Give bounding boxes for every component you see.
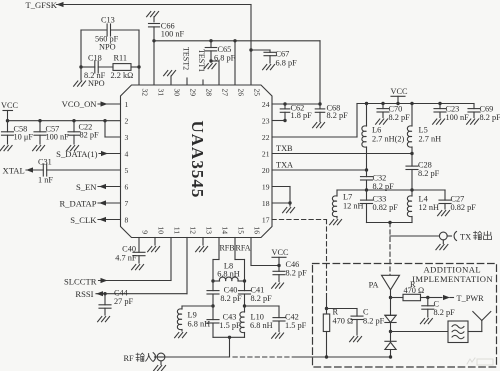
label XTAL [3, 166, 25, 176]
svg-text:6.8 nH: 6.8 nH [217, 270, 240, 279]
amplifier PA [369, 275, 400, 297]
wire R11 to pin 32 [137, 30, 140, 85]
svg-text:11: 11 [172, 227, 181, 235]
svg-text:470 Ω: 470 Ω [404, 286, 425, 295]
svg-text:L5: L5 [419, 126, 428, 135]
wire pin 22 to VCC rail [272, 104, 357, 138]
ground at pin 30 [164, 71, 176, 86]
svg-text:C13: C13 [101, 16, 115, 25]
ground below L9 [175, 333, 187, 338]
wire C13 loop left / node [79, 30, 82, 69]
ground below C65 [204, 64, 216, 69]
ground below C67 [263, 65, 275, 70]
ground below C44 [98, 317, 110, 322]
svg-text:7: 7 [125, 199, 129, 208]
svg-text:23: 23 [262, 116, 270, 125]
label RSSI / wire pin 12 [75, 238, 187, 300]
node C66 / net A [152, 39, 155, 42]
svg-text:RF: RF [124, 354, 135, 363]
capacitor C33 [361, 190, 399, 223]
wire C65 to pin 27 [211, 61, 219, 85]
U1 left pin numbers 1-8 [125, 100, 129, 225]
diode D1 [385, 298, 396, 332]
svg-text:9: 9 [140, 230, 149, 234]
svg-text:TXB: TXB [276, 144, 293, 153]
resistor R 470 vertical [323, 308, 353, 358]
capacitor C58 [2, 121, 34, 144]
svg-text:1 nF: 1 nF [38, 176, 53, 185]
ground below C42 [272, 333, 284, 338]
wire pin 24 net [272, 102, 322, 105]
inductor L4 [407, 190, 439, 223]
svg-text:TXA: TXA [276, 161, 293, 170]
capacitor C22 [68, 119, 99, 144]
capacitor C31 / wire pin 5 [26, 158, 121, 185]
svg-text:RFA: RFA [236, 243, 251, 252]
ground at pins 19/18 [283, 208, 295, 213]
ground below C18 node [74, 67, 86, 86]
U1 bottom pin numbers 9-16 [140, 226, 261, 234]
node R C junction [325, 307, 328, 310]
svg-text:8.2 pF: 8.2 pF [363, 317, 385, 326]
svg-text:8.2 pF: 8.2 pF [389, 113, 411, 122]
wire pin 17 dashed [272, 220, 327, 295]
wire pin 23 [272, 120, 285, 122]
wire VCC rail to pin 2 [6, 119, 121, 122]
capacitor C41 [239, 281, 273, 306]
svg-text:R_DATAP: R_DATAP [59, 199, 96, 209]
wire pin 17 into box [326, 294, 328, 309]
capacitor C66 [149, 22, 185, 86]
capacitor C43 [207, 306, 241, 337]
capacitor C32 [361, 170, 395, 191]
ground below right C [420, 319, 432, 324]
capacitor C70 [377, 104, 410, 123]
svg-text:21: 21 [262, 149, 270, 158]
wire net A to pin 24 node [319, 41, 321, 104]
connector RF input [153, 353, 165, 362]
capacitor C67 [249, 48, 297, 67]
power VCC right [391, 87, 409, 104]
svg-text:25: 25 [252, 89, 261, 97]
svg-text:32: 32 [140, 89, 149, 97]
ground below C40 [132, 265, 144, 270]
capacitor C69 [468, 104, 500, 123]
svg-text:C40: C40 [122, 245, 136, 254]
ground below C69 [467, 119, 479, 124]
wire TX node dashed down [389, 223, 391, 276]
svg-text:VCC: VCC [391, 87, 409, 96]
svg-text:2.7 nH(2): 2.7 nH(2) [372, 135, 404, 144]
wire pin 15 RFA [235, 238, 245, 282]
svg-text:6.8 pF: 6.8 pF [276, 59, 298, 68]
svg-text:VCO_ON: VCO_ON [62, 99, 98, 109]
wire to C42 [245, 306, 280, 318]
svg-text:27: 27 [220, 89, 229, 97]
capacitor C 8.2pF left [327, 308, 385, 336]
ground below RF connector [154, 366, 166, 371]
svg-text:8.2 pF: 8.2 pF [418, 169, 440, 178]
wire mid node M [337, 188, 445, 191]
label SLCCTR / wire pin 11 [64, 238, 171, 287]
svg-text:100 nF: 100 nF [46, 133, 70, 142]
op-amp U1 UAA3545 IC body [121, 85, 273, 238]
wire pin 14 RFB [213, 238, 219, 282]
U1 label UAA3545 [188, 121, 207, 199]
svg-text:L7: L7 [343, 193, 352, 202]
svg-text:C31: C31 [38, 158, 52, 167]
capacitor C40 8.2pF [207, 281, 242, 306]
wire filter to antenna [468, 331, 482, 333]
svg-text:VCC: VCC [272, 248, 290, 257]
antenna [473, 312, 491, 332]
capacitor C28 [406, 154, 440, 191]
node PA output [389, 296, 392, 299]
svg-text:TEST2: TEST2 [182, 47, 191, 70]
wire T_GFSK net from pin 25 [26, 0, 252, 85]
svg-text:5: 5 [125, 166, 129, 175]
svg-text:0.82 pF: 0.82 pF [373, 203, 399, 212]
capacitor C18 [81, 54, 113, 89]
wire TX tank bottom [367, 221, 413, 224]
wire VCC rail [357, 102, 474, 105]
ground below C57 [33, 146, 45, 151]
svg-text:C42: C42 [285, 313, 299, 322]
svg-text:10: 10 [156, 226, 165, 234]
label TX output [460, 231, 492, 241]
svg-text:S_EN: S_EN [76, 182, 97, 192]
capacitor C 8.2pF right [422, 298, 455, 318]
wire RF dashed [233, 356, 297, 358]
wire RF line in box [297, 355, 391, 358]
svg-text:L9: L9 [188, 311, 197, 320]
ground below C22 [67, 146, 79, 151]
svg-text:VCC: VCC [1, 101, 19, 110]
svg-text:30: 30 [172, 89, 181, 97]
svg-text:2: 2 [125, 116, 129, 125]
label ADDITIONAL IMPLEMENTATION [412, 265, 493, 284]
capacitor C57 [34, 119, 69, 144]
svg-text:8.2 pF: 8.2 pF [480, 113, 500, 122]
connector TX output [439, 232, 456, 244]
filter block [448, 321, 468, 343]
watermark [467, 358, 493, 365]
wire net A horizontal [154, 40, 320, 42]
svg-text:C18: C18 [88, 54, 102, 63]
svg-text:13: 13 [204, 226, 213, 234]
label TXB / wire pin 21 [272, 144, 412, 153]
ground below C23 [433, 119, 445, 124]
svg-text:C67: C67 [276, 50, 290, 59]
svg-text:8.2 pF: 8.2 pF [286, 269, 308, 278]
svg-text:RSSI: RSSI [75, 289, 93, 299]
label S_EN / wire pin 6 [76, 182, 121, 192]
label RFA [236, 243, 251, 252]
svg-text:TX: TX [460, 233, 471, 242]
wire / node to L9 [182, 304, 215, 309]
ground below C46 [272, 283, 284, 288]
svg-text:22: 22 [262, 133, 270, 142]
svg-text:L6: L6 [372, 126, 381, 135]
svg-text:10 μF: 10 μF [14, 133, 34, 142]
svg-text:8.2 pF: 8.2 pF [327, 111, 349, 120]
svg-text:8.2 pF: 8.2 pF [251, 294, 273, 303]
inductor L8 [211, 262, 246, 283]
svg-text:27 pF: 27 pF [114, 297, 134, 306]
svg-text:28: 28 [204, 89, 213, 97]
ground at pin 10 [148, 238, 160, 252]
diode D2 [385, 332, 396, 359]
svg-text:100 nF: 100 nF [161, 30, 185, 39]
label RF input [124, 353, 153, 363]
ground below C70 [376, 119, 388, 124]
svg-text:15: 15 [236, 226, 245, 234]
svg-text:19: 19 [262, 182, 270, 191]
svg-text:4.7 nF: 4.7 nF [115, 254, 137, 263]
wire to TX connector [390, 235, 439, 237]
label R_DATAP / wire pin 7 [59, 199, 120, 209]
wire pin 26 to net A [233, 39, 236, 85]
svg-text:12: 12 [188, 226, 197, 234]
wire pin 16 to VCC node [251, 238, 279, 266]
ground below TX connector [436, 245, 448, 250]
svg-text:8: 8 [125, 215, 129, 224]
svg-text:NPO: NPO [99, 43, 116, 52]
svg-text:3: 3 [125, 133, 129, 142]
svg-text:1.5 pF: 1.5 pF [285, 321, 307, 330]
svg-text:470 Ω: 470 Ω [333, 317, 354, 326]
svg-text:T_PWR: T_PWR [457, 294, 485, 303]
resistor R11 [111, 54, 140, 81]
label RFB [219, 243, 234, 252]
svg-text:0.82 pF: 0.82 pF [451, 203, 477, 212]
svg-text:RFB: RFB [219, 243, 234, 252]
wire pins 19-18 to ground [272, 187, 292, 207]
svg-text:1.8 pF: 1.8 pF [291, 111, 313, 120]
label VCO_ON / wire pin 1 [62, 99, 121, 109]
capacitor C13 [81, 16, 139, 52]
inductor L5 [407, 104, 441, 156]
svg-text:PA: PA [369, 281, 379, 290]
svg-text:1.5 pF: 1.5 pF [219, 321, 241, 330]
ground at pin 13 [196, 238, 208, 252]
svg-text:24: 24 [262, 100, 270, 109]
label S_DATA(1) / wire pin 4 [56, 149, 120, 159]
svg-text:2.7 nH: 2.7 nH [419, 135, 442, 144]
svg-text:12 nH: 12 nH [343, 202, 364, 211]
node diode junction [389, 330, 392, 333]
svg-text:C: C [363, 308, 369, 317]
capacitor C23 [434, 104, 469, 123]
svg-text:C43: C43 [223, 313, 237, 322]
wire to filter [391, 331, 449, 333]
power VCC mid [272, 248, 290, 267]
ground below left C [350, 337, 362, 342]
capacitor C40 4.7nF at pin 9 [115, 238, 145, 264]
ground below C58 [0, 146, 12, 151]
power VCC left [1, 101, 19, 121]
dashed box ADDITIONAL IMPLEMENTATION [313, 264, 497, 368]
wire rail to pin 3 [103, 119, 120, 137]
U1 right pin numbers 24-17 [262, 100, 270, 225]
svg-text:14: 14 [220, 226, 229, 234]
svg-text:S_DATA(1): S_DATA(1) [56, 149, 97, 159]
capacitor C44 [99, 289, 134, 316]
svg-text:26: 26 [236, 89, 245, 97]
inductor L6 [362, 104, 405, 172]
ground below C27 [438, 211, 450, 216]
label T_PWR [457, 294, 485, 303]
svg-text:6: 6 [125, 182, 129, 191]
ground below C68 [313, 123, 325, 128]
svg-text:29: 29 [188, 89, 197, 97]
wire RF input line [161, 357, 230, 365]
svg-text:L10: L10 [251, 313, 264, 322]
svg-text:12 nH: 12 nH [419, 203, 440, 212]
capacitor C42 [273, 313, 307, 332]
svg-text:20: 20 [262, 166, 270, 175]
inductor L10 [240, 304, 273, 337]
svg-text:4: 4 [125, 149, 129, 158]
svg-text:IMPLEMENTATION: IMPLEMENTATION [412, 274, 493, 284]
svg-text:2.2 kΩ: 2.2 kΩ [111, 71, 134, 80]
ground above C66 [147, 12, 159, 22]
svg-text:NPO: NPO [88, 79, 105, 88]
pin 29 TEST2 label [182, 47, 191, 85]
svg-text:1: 1 [125, 100, 129, 109]
svg-text:XTAL: XTAL [3, 166, 25, 176]
svg-text:31: 31 [156, 89, 165, 97]
svg-text:100 nF: 100 nF [446, 113, 470, 122]
resistor R 470 horizontal [391, 280, 428, 301]
capacitor C46 [273, 260, 307, 282]
svg-text:16: 16 [252, 226, 261, 234]
inductor L7 [332, 190, 363, 218]
svg-text:17: 17 [262, 215, 270, 224]
svg-text:6.8 nH: 6.8 nH [188, 320, 211, 329]
svg-text:SLCCTR: SLCCTR [64, 276, 97, 286]
svg-text:18: 18 [262, 199, 270, 208]
pin 28 TEST1 label [197, 49, 206, 85]
svg-text:6.8 nH: 6.8 nH [250, 321, 273, 330]
capacitor C68 [315, 103, 348, 121]
capacitor C27 [412, 190, 476, 212]
svg-text:82 pF: 82 pF [80, 131, 100, 140]
svg-text:8.2 pF: 8.2 pF [434, 308, 456, 317]
svg-text:S_CLK: S_CLK [70, 215, 97, 225]
svg-text:8.2 pF: 8.2 pF [220, 294, 242, 303]
label TXA / wire pin 20 [272, 161, 367, 170]
ground below L7 [330, 220, 342, 225]
capacitor C62 [280, 103, 312, 122]
label S_CLK / wire pin 8 [70, 215, 120, 225]
U1 top pin numbers 32-25 [140, 89, 261, 97]
wire network bottom [213, 336, 245, 357]
wire to T_PWR [426, 295, 453, 300]
svg-text:R11: R11 [114, 54, 128, 63]
svg-text:UAA3545: UAA3545 [188, 121, 207, 199]
svg-text:T_GFSK: T_GFSK [26, 0, 58, 10]
capacitor C65 [205, 39, 235, 63]
inductor L9 [177, 309, 210, 331]
